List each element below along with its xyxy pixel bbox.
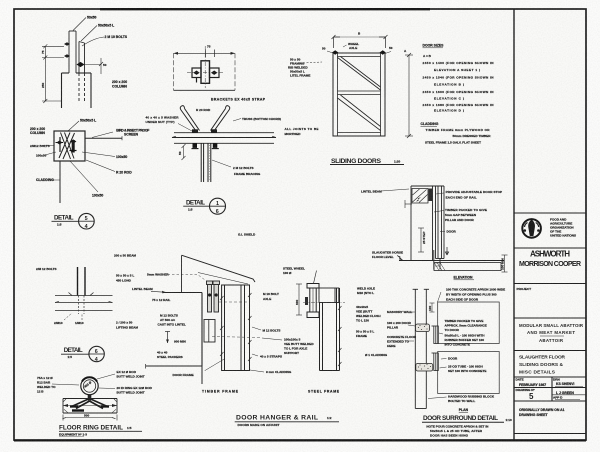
bracket right square [210,68,220,78]
ring [81,377,98,394]
shield slope line [182,255,256,282]
leader to 50x50x5 [68,121,79,131]
hanger rods below chord [201,143,211,182]
dim 50 left of rod [182,144,186,160]
door outer frame [333,53,385,136]
hanger strap right [213,281,220,312]
bottom edge line [174,89,236,91]
bracket centre lines [187,72,224,74]
masonry pillar lower [416,363,433,371]
apron leader [438,292,442,302]
apron section [434,263,501,271]
wheel left [332,50,338,54]
buffer angle lower [432,353,439,371]
base plate [63,399,117,414]
step dim ticks [418,228,424,252]
title block horizontal dividers [514,213,586,434]
shield second slope [198,273,248,285]
wheel dim 600 [296,284,302,315]
apron rect lower [438,352,500,394]
leader 2 M10 bolts [82,37,104,46]
leader 100x50 lower [70,161,98,192]
FAO logo [522,219,541,238]
shield left drop [181,256,183,293]
base mid line with arrows [63,405,117,407]
leader 50x50 [73,18,86,31]
truss chord label [233,119,241,122]
wheel right [380,50,386,54]
lintel section box [146,293,203,369]
down arrow at door bottom [445,247,448,255]
leader R20 rod [86,160,115,172]
leg foot blobs [70,405,109,407]
bolt offset dim 50 [85,58,104,74]
hidden bolts dashed [79,296,85,315]
900 min dim [165,332,170,344]
hanger strap left [207,281,213,312]
base hatch [63,399,117,413]
leader 100x50 right [82,152,115,157]
project title [519,323,584,343]
rail bracket [319,288,339,303]
100 min dim [502,255,508,272]
diagonal rod left [180,106,199,131]
lower bracket [204,320,215,343]
top dimension B [334,36,385,38]
door diagonal braces [338,57,381,131]
bracket centre plate [201,61,210,84]
bracket bolts [193,71,199,75]
post double line [78,267,86,296]
bolt M10 lower [64,54,70,58]
right dimension A [405,53,413,138]
braced box [54,131,85,161]
FAO wordmark text [550,218,576,238]
leader 50x50x5 [81,26,97,42]
leader bird screen [92,132,113,138]
angle 50x50x5 L plate [79,42,85,102]
bolt M10 upper [64,42,70,46]
brace bolt left [57,141,63,145]
title block left border [513,9,515,440]
axle centre line [303,301,345,303]
rail to right of box [85,137,122,139]
door stop block [429,189,433,202]
bolt large [77,62,85,67]
panel hatch ticks [220,293,252,361]
bolt drop tick [196,78,198,83]
framing note column [288,58,310,78]
weld ticks [69,293,94,296]
ring stem [88,394,92,400]
wall lines (plan) [413,289,429,408]
floor line [399,260,504,262]
door leaf [434,186,444,270]
base dim 500 [63,415,117,421]
buffer angle upper [432,326,439,344]
pillar dim ticks [405,203,412,205]
pillar [411,186,444,261]
mid line arrows [55,301,113,302]
axle boss [305,297,308,305]
date / drawn cells [516,378,587,402]
column post 50x50 [69,31,76,73]
sheet title [519,355,566,376]
column 200x200 [62,73,92,108]
masonry pillar upper [416,324,430,332]
steel door panel [320,288,340,371]
steel panel hatch ticks [338,306,342,366]
timber frame leader [205,359,225,371]
timber door panel [222,285,250,371]
left dimension chain [42,44,64,103]
brace bolt right [70,139,76,143]
bolt washer ticks [192,148,199,150]
ring legs [71,399,109,409]
diagonal rod right [211,106,230,131]
chord bolts [193,143,198,148]
leader dash through panel [212,337,260,338]
scan noise overlay [0,0,1,1]
beam horizontal lines [55,296,113,311]
wall top dim [430,303,435,312]
wheel hub line [312,288,314,312]
X bracing [59,133,75,160]
post below box [59,161,61,203]
door frame line below box [201,366,203,384]
apron rect upper [438,302,500,344]
door stiles inner lines [338,53,381,136]
bottom note cell [519,408,565,417]
section side lines [173,53,175,90]
top dim line [174,50,236,58]
rod base plates [192,129,198,133]
steel wheel I-profile [307,284,319,318]
bottom chord triple line [172,133,276,144]
firm name [519,250,581,269]
bracket left square [192,68,201,78]
